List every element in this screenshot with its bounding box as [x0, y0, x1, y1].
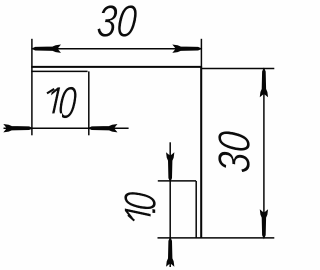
profile bottom hem lip [195, 181, 197, 238]
dimension line bottom 10 [169, 142, 171, 267]
extension line at hem end (x=88.8) [88, 71, 90, 135]
arrow right-30 bottom (points down) [260, 211, 267, 239]
profile top face (thick contour) [31, 66, 202, 68]
arrow bottom-10 upper (points down) [167, 154, 174, 182]
extension line left (x=31.9) [31, 39, 33, 136]
dimension line top 30 [32, 48, 201, 50]
svg-text:30: 30 [95, 0, 139, 46]
svg-text:30: 30 [209, 129, 259, 174]
arrow left-10 outer-right (points left) [89, 125, 117, 132]
arrow bottom-10 lower (points up) [167, 238, 174, 266]
profile left hem lip [31, 70, 87, 72]
arrow top-right (points right) [174, 45, 202, 52]
flag extender for bottom rotated "10" digit 1 [128, 215, 134, 221]
extension line bottom (y=237.9) [158, 237, 275, 239]
arrow top-left (points left) [32, 45, 60, 52]
extension line right of corner (y=68.5) [202, 68, 274, 70]
mask: hide foot serif of bottom rotated "10" digit 1 [151, 213, 158, 227]
arrow left-10 outer-left (points right) [5, 125, 33, 132]
flag extender for left "10" digit 1 [47, 89, 54, 94]
extension line above corner (x=201.4) [200, 39, 202, 66]
dimension line left 10 [4, 127, 129, 129]
mask: hide foot serif of left "10" digit 1 [42, 113, 62, 120]
dimension line right 30 [263, 69, 265, 238]
extension line hem top (y=180.9) [158, 180, 196, 182]
profile right face (thick contour) [200, 66, 202, 238]
arrow right-30 top (points up) [260, 69, 267, 97]
